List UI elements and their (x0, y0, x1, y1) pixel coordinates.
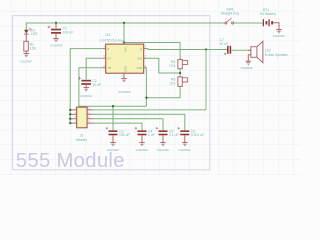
svg-text:R: R (107, 47, 109, 51)
capacitor C3 (106, 127, 130, 143)
speaker LS1 (248, 41, 288, 62)
svg-text:555 Module: 555 Module (16, 150, 125, 172)
node junction C3 (112, 105, 114, 107)
ground under U1 (121, 79, 127, 82)
U1 pin names (107, 46, 143, 72)
svg-text:10 uF: 10 uF (220, 42, 229, 46)
svg-text:10 k: 10 k (169, 64, 176, 68)
wire LED to R1 (25, 34, 27, 41)
svg-text:0.1 uF: 0.1 uF (169, 133, 179, 137)
wire U1 CV pin to C2 (86, 58, 103, 79)
connector J1 (76, 107, 88, 142)
ground under C5 (160, 143, 166, 146)
svg-text:TR: TR (107, 66, 111, 70)
capacitor C4 (135, 127, 155, 143)
battery BT1 (260, 8, 276, 27)
svg-text:VCC: VCC (124, 46, 128, 52)
wire Q down to J1 pin wire (205, 50, 207, 110)
ground under R1 (24, 54, 30, 57)
node junction VCC branch (123, 41, 125, 43)
ground under battery (276, 30, 282, 33)
U1 pin 1 GND stub (123, 73, 125, 78)
wire R4 to R5 (179, 69, 181, 77)
svg-text:100 uF: 100 uF (63, 31, 74, 35)
svg-text:CV: CV (107, 56, 111, 60)
ground under C3 (110, 143, 116, 146)
resistor R4 (169, 60, 188, 69)
wire VCC branch to R4 (124, 43, 180, 60)
node junction DIS/R4/R5 (179, 72, 181, 74)
ground under C2 (83, 88, 89, 91)
wire R5 bottom to THR column (146, 86, 180, 97)
svg-text:8 ohm Speaker: 8 ohm Speaker (265, 53, 289, 57)
wire C3 drop from TR/THR net (112, 106, 114, 130)
svg-text:GNDREF: GNDREF (50, 43, 63, 47)
U1 left pins 4,5,2 (103, 49, 106, 68)
node junction U1 VCC/rail (123, 22, 125, 24)
resistor R1 (24, 41, 37, 51)
svg-text:GNDREF: GNDREF (240, 66, 253, 70)
svg-text:10 k: 10 k (169, 81, 176, 85)
U1 right pins 3,7,6 (144, 49, 147, 68)
svg-text:100 uF: 100 uF (119, 133, 130, 137)
svg-text:GNDREF: GNDREF (136, 148, 149, 152)
svg-text:GNDREF: GNDREF (157, 148, 170, 152)
svg-text:DIS: DIS (137, 56, 142, 60)
J1 right pin stubs (87, 110, 93, 123)
LED D1 (24, 28, 38, 36)
svg-text:GNDREF: GNDREF (20, 60, 33, 64)
svg-text:GNDREF: GNDREF (273, 34, 286, 38)
wire U1 Q output to speaker (147, 48, 228, 51)
svg-text:1 uF: 1 uF (148, 133, 155, 137)
wire VCC top rail (26, 23, 262, 30)
wire R1 to gnd (25, 51, 27, 53)
svg-text:Header: Header (76, 138, 88, 142)
svg-text:GNDREF: GNDREF (178, 148, 191, 152)
node junction Q/J1 (205, 48, 207, 50)
wire J1 pin4 to C6 (93, 114, 185, 130)
node junctions on J1 left column (69, 109, 71, 111)
J1 left pin stubs (70, 110, 77, 123)
switch SW1 (221, 7, 240, 24)
wire J1 pin2 to Q column (93, 109, 206, 111)
wire C7 to speaker (231, 49, 251, 51)
node junction C1/rail (55, 22, 57, 24)
capacitor C7 (220, 38, 232, 55)
svg-text:1.5k: 1.5k (30, 46, 37, 50)
wire U1 TR pin down-right (79, 68, 146, 106)
frame border (13, 16, 210, 170)
op-amp U1 LM555xN body (100, 32, 144, 73)
svg-text:0.001 uF: 0.001 uF (191, 133, 204, 137)
svg-text:GNDREF: GNDREF (107, 148, 120, 152)
capacitor C5 (156, 127, 179, 143)
ground under speaker (246, 61, 252, 64)
svg-text:Straight Key: Straight Key (221, 12, 240, 16)
wire U1 R pin to J1 column (70, 49, 103, 124)
ground under C6 (182, 143, 188, 146)
svg-text:GNDREF: GNDREF (118, 90, 131, 94)
svg-text:THR: THR (136, 66, 142, 70)
wire battery to gnd (273, 23, 279, 30)
capacitor C6 (178, 127, 205, 143)
wire J1 pin8 to C4 (93, 123, 142, 130)
capacitor C1 (48, 23, 74, 39)
svg-text:LED: LED (31, 32, 38, 36)
resistor R5 (169, 77, 188, 87)
svg-text:GND: GND (124, 66, 128, 72)
wire J1 pin6 to C5 (93, 119, 163, 131)
svg-text:LM555xN: LM555xN (100, 37, 122, 42)
wire VCC drop to U1 pin 8 (123, 23, 125, 43)
wire U1 THR pin down (145, 68, 147, 106)
svg-text:9V Battery: 9V Battery (260, 12, 276, 16)
svg-text:10 nF: 10 nF (92, 83, 101, 87)
ground under C1 (53, 38, 59, 41)
capacitor C2 (78, 77, 101, 88)
U1 pin 8 VCC stub (123, 43, 125, 45)
node junction THR/R5 (145, 97, 147, 99)
ground under C4 (139, 143, 145, 146)
svg-text:GNDREF: GNDREF (80, 94, 93, 98)
wire U1 DIS pin to R4/R5 junction (147, 58, 181, 73)
